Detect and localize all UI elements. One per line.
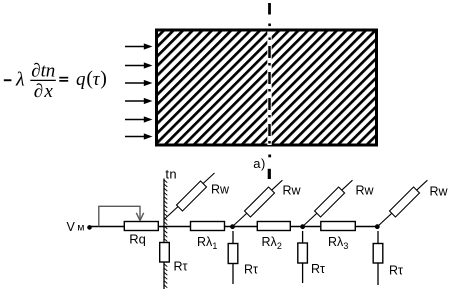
svg-text:λ: λ: [15, 68, 25, 90]
svg-text:м: м: [77, 222, 84, 234]
svg-text:Rw: Rw: [430, 185, 449, 199]
svg-text:Rλ: Rλ: [197, 235, 213, 249]
svg-text:Rλ: Rλ: [328, 235, 344, 249]
svg-text:Rτ: Rτ: [244, 263, 258, 277]
svg-text:1: 1: [212, 241, 217, 251]
svg-text:∂x: ∂x: [34, 81, 54, 102]
svg-text:Rτ: Rτ: [174, 260, 188, 274]
svg-text:): ): [100, 67, 107, 89]
svg-text:tn: tn: [165, 166, 177, 181]
svg-text:∂tn: ∂tn: [31, 61, 55, 82]
svg-text:3: 3: [343, 241, 348, 251]
svg-text:Rw: Rw: [356, 184, 375, 198]
svg-text:Rτ: Rτ: [389, 264, 403, 278]
svg-text:Rλ: Rλ: [262, 235, 278, 249]
svg-text:Rw: Rw: [283, 184, 302, 198]
svg-text:V: V: [67, 220, 76, 234]
svg-text:Rq: Rq: [129, 232, 146, 247]
svg-text:q: q: [76, 69, 86, 90]
svg-text:Rw: Rw: [211, 183, 230, 197]
svg-text:2: 2: [277, 241, 282, 251]
svg-text:Rτ: Rτ: [311, 262, 325, 276]
svg-text:а): а): [253, 156, 266, 171]
